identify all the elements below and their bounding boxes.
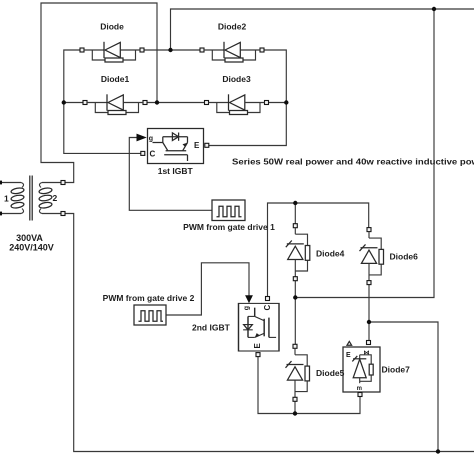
diode Diode2 (top-right bridge arm) (200, 22, 264, 63)
svg-text:Diode3: Diode3 (222, 74, 251, 84)
primary terminals (0, 182, 21, 184)
wire top-right rail (171, 9, 474, 50)
wire top-left loop: transformer secondary top to diode bridge (41, 3, 157, 183)
arrowhead gate 1st IGBT (137, 134, 147, 142)
svg-text:2: 2 (53, 193, 58, 203)
svg-text:E: E (194, 141, 200, 150)
diode Diode1 (lower-left bridge arm) (83, 74, 147, 115)
wire Diode6 bottom to Diode7 top (368, 285, 370, 341)
svg-text:g: g (244, 306, 251, 310)
svg-text:C: C (150, 150, 156, 159)
svg-text:PWM from gate drive 2: PWM from gate drive 2 (103, 293, 195, 303)
pulse generator "PWM from gate drive 1" (183, 200, 275, 232)
igbt U2 "2nd IGBT" (rotated) (192, 297, 279, 357)
svg-text:g: g (149, 136, 153, 143)
svg-text:Diode7: Diode7 (382, 365, 411, 375)
svg-text:E: E (253, 343, 262, 349)
wire Diode2 right to E of 1st IGBT (209, 50, 286, 146)
svg-text:Series 50W real power and 40w: Series 50W real power and 40w reactive i… (232, 156, 474, 166)
wire row y=50: Diode right port to Diode2 left port (144, 49, 200, 51)
wire Diode6/7 junction right to bottom rail (369, 322, 438, 452)
arrowhead gate 2nd IGBT (245, 295, 253, 303)
wire PWM1 to 1st IGBT gate (129, 138, 212, 211)
core (29, 176, 31, 221)
secondary winding (39, 183, 42, 188)
node junction Diode5 bottom / lower bus (293, 411, 297, 415)
wire branch down to Diode4 top (294, 203, 296, 224)
transformer T1 300VA 240V/140V (0, 176, 65, 253)
diode Diode3 (lower-right bridge arm) (205, 74, 269, 115)
igbt U1 "1st IGBT" (141, 129, 209, 177)
svg-text:Diode: Diode (100, 22, 124, 32)
svg-text:PWM from gate drive 1: PWM from gate drive 1 (183, 222, 275, 232)
wire transformer secondary bottom to bottom rail (65, 214, 474, 452)
primary winding (21, 183, 24, 188)
node junction at Diode/Diode2 row and top-right rail (168, 48, 172, 52)
diode Diode7 (block with internal diode icon) (343, 341, 410, 397)
node junction Diode4-Diode5 vertical / y297 bus (293, 295, 297, 299)
wire right tall vertical from top rail down to mid bus (295, 9, 434, 298)
svg-text:300VA: 300VA (16, 233, 43, 243)
node junction Diode6-Diode7 vertical / y322 branch (367, 320, 371, 324)
svg-text:Diode1: Diode1 (101, 74, 130, 84)
node junction Diode3 right / mid vertical (284, 100, 288, 104)
node junction top rail / right tall vertical (432, 7, 436, 11)
pulse generator "PWM from gate drive 2" (103, 293, 195, 325)
node junction y203 wire / Diode4 branch (293, 201, 297, 205)
svg-text:2nd IGBT: 2nd IGBT (192, 323, 231, 333)
wire Diode3 right to mid vertical (269, 102, 287, 104)
node junction left rail / Diode1 (62, 100, 66, 104)
svg-text:⋈: ⋈ (364, 350, 370, 357)
wire 2nd IGBT C up and across to Diode4/Diode6 tops (268, 203, 369, 297)
wire lower bus: 2nd IGBT E to Diode7 bottom (258, 357, 360, 414)
svg-text:Diode5: Diode5 (316, 368, 345, 378)
svg-text:Diode4: Diode4 (316, 249, 345, 259)
svg-text:E: E (346, 352, 351, 359)
wire PWM2 to 2nd IGBT gate (166, 263, 249, 315)
wire Diode5 bottom to lower bus (294, 401, 296, 414)
diode Diode6 (vertical, upper inverter leg right) (360, 228, 419, 285)
node junction x157 rail / Diode1 row (155, 100, 159, 104)
wire Diode1 right to Diode3 left (147, 102, 205, 104)
diode Diode4 (vertical, upper inverter leg left) (286, 224, 345, 281)
svg-text:m: m (357, 386, 362, 392)
svg-text:C: C (263, 305, 272, 311)
svg-text:1: 1 (4, 194, 9, 204)
svg-text:Diode6: Diode6 (390, 252, 419, 262)
svg-text:Diode2: Diode2 (218, 22, 247, 32)
diode Diode (top-left bridge arm) (80, 22, 144, 63)
svg-text:240V/140V: 240V/140V (9, 242, 54, 252)
wire Diode4 bottom to Diode5 top (294, 281, 296, 344)
node junction bottom rail / right vertical (436, 449, 440, 453)
secondary terminals (42, 182, 61, 184)
wire node left-rail to Diode1 left port (64, 102, 83, 104)
svg-text:1st IGBT: 1st IGBT (158, 166, 194, 176)
wire left rail: diode bridge left side down to 1st IGBT C (64, 50, 141, 153)
diode Diode5 (vertical, lower inverter leg left) (286, 344, 345, 401)
